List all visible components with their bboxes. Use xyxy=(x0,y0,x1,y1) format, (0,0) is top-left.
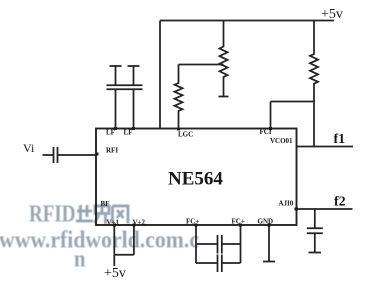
ground GND pin lead xyxy=(263,225,275,262)
capacitor C5 (upper, between FC pins) xyxy=(196,235,241,254)
wire FC pin 1 down xyxy=(195,225,197,263)
svg-text:n: n xyxy=(74,246,86,273)
svg-text:LF: LF xyxy=(124,129,133,137)
resistor R3 (from +5v rail down to f1 line) xyxy=(310,21,318,147)
wire joining V+1/V+2 to +5v xyxy=(114,255,134,266)
pin tick LF 2 xyxy=(132,127,135,130)
pin tick LGC xyxy=(177,128,180,131)
watermark line3 n xyxy=(74,246,87,274)
svg-text:LF: LF xyxy=(106,129,115,137)
pin tick V+1 xyxy=(113,224,116,227)
svg-text:AJI0: AJI0 xyxy=(279,200,294,208)
svg-text:+5v: +5v xyxy=(321,7,343,22)
svg-text:LGC: LGC xyxy=(178,131,193,139)
pin tick GND xyxy=(268,224,271,227)
pin tick FCI xyxy=(269,127,272,130)
resistor R1 (from +5v rail down to open bar) xyxy=(220,21,228,97)
watermark line1 RFID世界网 xyxy=(29,202,77,229)
svg-text:GND: GND xyxy=(258,218,274,226)
svg-text:f1: f1 xyxy=(334,132,346,147)
wire FCI branch vertical to FCI pin xyxy=(270,102,272,129)
pin tick V+2 xyxy=(133,224,136,227)
pin tick RFI xyxy=(96,153,99,156)
pin tick AJI0 xyxy=(295,208,299,211)
IC U1 NE564 box xyxy=(96,129,297,226)
capacitor C3 (Vi input coupling) xyxy=(43,147,97,163)
capacitor C6 (lower, between FC pins) xyxy=(196,255,241,273)
watermark line2 www.rfidworld.com.c xyxy=(0,227,201,255)
watermark CJK 世界网 (hand-drawn) xyxy=(77,206,129,225)
svg-text:V+1: V+1 xyxy=(107,219,120,227)
svg-text:BF: BF xyxy=(101,200,110,208)
svg-text:FCI: FCI xyxy=(260,128,272,136)
resistor R2 (down to LGC pin) xyxy=(175,65,183,130)
svg-text:Vi: Vi xyxy=(23,141,35,155)
svg-text:FC+: FC+ xyxy=(232,218,245,226)
pin tick LF 1 xyxy=(114,127,117,130)
wire f1 output xyxy=(297,146,354,148)
wire +5v top rail xyxy=(160,20,334,22)
svg-text:+5v: +5v xyxy=(104,266,126,281)
wire f2 output xyxy=(297,208,353,210)
svg-text:FC+: FC+ xyxy=(186,218,199,226)
wire V+1 pin down xyxy=(113,225,115,255)
svg-text:NE564: NE564 xyxy=(168,169,223,190)
wire R2 top to R1 body xyxy=(179,64,224,66)
svg-text:RFID: RFID xyxy=(29,202,76,228)
wire V+2 pin down xyxy=(133,225,135,255)
wire left drop from rail to IC top xyxy=(159,21,161,129)
pin tick FC+ 1 xyxy=(195,224,198,227)
pin labels xyxy=(101,128,294,227)
svg-text:RFI: RFI xyxy=(106,147,118,155)
capacitor C2 (LF pin 2) xyxy=(125,66,143,129)
wire FC pin 2 down xyxy=(240,225,242,263)
svg-text:VCO01: VCO01 xyxy=(270,137,293,145)
wire FCI branch horizontal xyxy=(271,101,315,103)
capacitor C1 (LF pin 1) xyxy=(107,66,125,129)
capacitor C4 (on f2 line to ground bar) xyxy=(307,209,323,253)
pin tick FC+ 2 xyxy=(239,224,242,227)
svg-text:www.rfidworld.com.c: www.rfidworld.com.c xyxy=(0,227,199,254)
svg-text:V+2: V+2 xyxy=(133,219,146,227)
svg-text:f2: f2 xyxy=(334,195,346,210)
